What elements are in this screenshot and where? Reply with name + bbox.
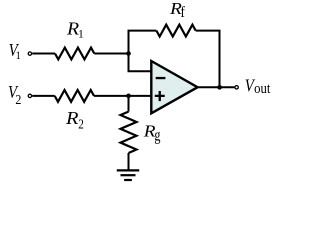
svg-text:out: out — [254, 80, 271, 96]
svg-text:1: 1 — [78, 27, 84, 40]
svg-text:2: 2 — [15, 92, 21, 107]
svg-text:2: 2 — [78, 116, 84, 131]
svg-text:f: f — [181, 4, 186, 21]
svg-text:1: 1 — [16, 50, 21, 62]
svg-text:R: R — [65, 109, 79, 129]
svg-text:g: g — [154, 127, 160, 145]
